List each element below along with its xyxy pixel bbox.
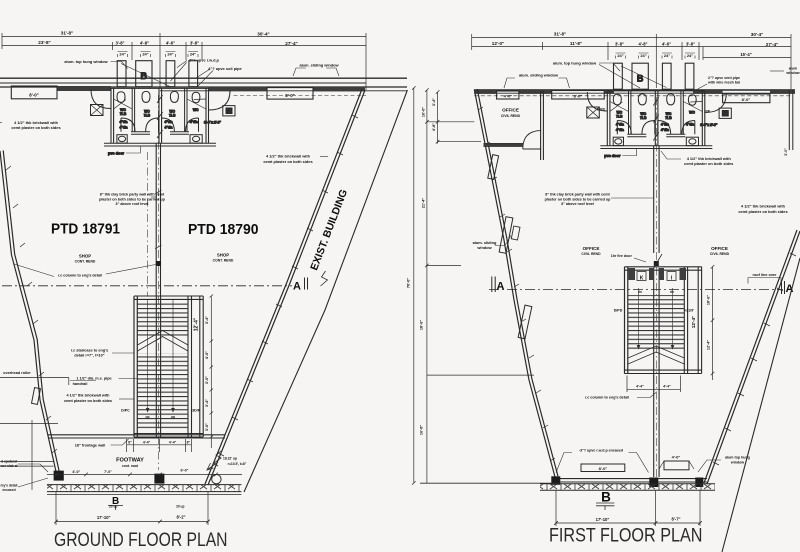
svg-text:8'-0": 8'-0"	[574, 93, 583, 98]
stair treads upper flight	[137, 302, 188, 336]
svg-text:7'-0": 7'-0"	[104, 470, 112, 474]
stair bottom wall	[134, 434, 203, 437]
wall window 1	[488, 155, 499, 180]
section line A-A right plan	[489, 289, 783, 291]
window box 4'-0	[497, 91, 519, 99]
svg-text:3'-4": 3'-4"	[205, 399, 209, 407]
svg-text:4'-8": 4'-8"	[432, 123, 436, 131]
svg-text:24": 24"	[664, 53, 670, 58]
section line break zigzag	[321, 271, 328, 286]
svg-text:3'-8": 3'-8"	[115, 41, 124, 46]
leader top hung	[599, 63, 707, 91]
roof note bracket	[748, 278, 781, 284]
svg-text:detail r=7", t=10": detail r=7", t=10"	[74, 354, 104, 358]
svg-text:8": 8"	[187, 441, 191, 445]
svg-text:-3"? upvc r.w.d.p encased: -3"? upvc r.w.d.p encased	[579, 449, 623, 453]
svg-text:my's detail: my's detail	[1, 484, 18, 488]
party note leader	[611, 197, 653, 199]
section line A-A	[2, 285, 292, 287]
svg-text:plaster on both sides to be ca: plaster on both sides to be carried up	[545, 197, 612, 201]
svg-text:dn: dn	[670, 290, 674, 294]
party door leaf	[654, 254, 662, 268]
svg-text:cemt plaster on both sides: cemt plaster on both sides	[64, 399, 112, 403]
window box 8'-0 right	[267, 88, 313, 100]
lower dim ticks	[54, 520, 210, 524]
party wall below wc	[654, 146, 659, 478]
svg-text:FOOTWAY: FOOTWAY	[116, 458, 144, 464]
svg-text:12'-0": 12'-0"	[492, 41, 504, 46]
section marker right bars	[782, 281, 785, 294]
leader rwdp	[177, 61, 187, 68]
svg-text:window: window	[785, 71, 799, 75]
dimension line 31'-8 / 30'-4	[2, 36, 366, 38]
dimension line row 2	[2, 45, 366, 47]
svg-text:4 1/2" thk brickwall with: 4 1/2" thk brickwall with	[67, 394, 111, 398]
svg-text:3'-8": 3'-8"	[686, 42, 695, 47]
24in bracket ticks	[118, 52, 199, 58]
rail connector 3	[426, 265, 461, 267]
rail connector 1	[427, 121, 474, 123]
svg-text:1hr fire door: 1hr fire door	[611, 254, 633, 258]
svg-text:K: K	[640, 276, 644, 282]
stair right dim rail	[712, 267, 714, 380]
wc cluster	[91, 61, 236, 156]
svg-text:CONT. REND: CONT. REND	[75, 260, 96, 264]
svg-text:4"? upvc soil pipe: 4"? upvc soil pipe	[208, 66, 242, 71]
svg-text:8'-0": 8'-0"	[742, 97, 751, 102]
svg-text:(3D/P: (3D/P	[191, 409, 201, 413]
exist boundary line right plan	[722, 258, 800, 552]
party wall ticks	[155, 190, 162, 249]
svg-text:11'-8": 11'-8"	[570, 41, 582, 46]
svg-text:24": 24"	[687, 53, 693, 58]
rail ticks	[412, 86, 439, 485]
dim extension verticals	[472, 34, 791, 92]
stair bottom dim verticals	[627, 376, 681, 393]
svg-text:with wire mesh bal: with wire mesh bal	[707, 81, 740, 85]
rail ticks	[711, 265, 715, 375]
left wall ticks	[478, 107, 555, 461]
wall window 2	[499, 217, 513, 254]
manhole circle	[212, 475, 221, 484]
svg-text:window: window	[730, 460, 744, 464]
24in bracket ticks	[616, 53, 696, 59]
party wall below wc	[156, 143, 160, 296]
handrail underline	[70, 380, 96, 382]
svg-text:A: A	[293, 281, 301, 293]
svg-text:cemt plaster on both sides: cemt plaster on both sides	[11, 125, 60, 130]
svg-text:r.c staircase to eng's: r.c staircase to eng's	[71, 349, 108, 353]
dimension line row 3	[703, 57, 791, 59]
right wall (double diagonal)	[208, 90, 365, 485]
footway band lower line	[47, 494, 241, 496]
svg-text:3" above roof level: 3" above roof level	[561, 202, 594, 206]
svg-text:4'-0": 4'-0"	[672, 455, 681, 460]
frontage leader	[111, 439, 129, 445]
leader right edge	[770, 70, 784, 72]
svg-text:r=10.5', t=8": r=10.5', t=8"	[228, 462, 247, 466]
window box 8'-0 left	[11, 86, 57, 99]
svg-text:CIVIL REND: CIVIL REND	[710, 252, 730, 256]
svg-text:20 up: 20 up	[109, 505, 117, 509]
top wall line 4	[160, 90, 407, 92]
office door arc	[523, 131, 541, 149]
svg-text:4'-6": 4'-6"	[166, 41, 175, 46]
svg-text:8'-0": 8'-0"	[599, 466, 608, 471]
office room wall vertical	[541, 91, 544, 160]
svg-text:3'-8": 3'-8"	[190, 41, 199, 46]
svg-text:CONT. REND: CONT. REND	[213, 259, 234, 263]
svg-text:PTD 18791: PTD 18791	[51, 222, 120, 238]
svg-text:70'-0": 70'-0"	[407, 278, 411, 289]
svg-text:24": 24"	[119, 52, 125, 57]
svg-text:plaster on both sides to be ca: plaster on both sides to be carried up	[99, 197, 166, 201]
svg-text:r.c column to eng's detail: r.c column to eng's detail	[58, 274, 102, 278]
right wall ticks	[713, 253, 796, 465]
svg-text:3'-0": 3'-0"	[205, 376, 209, 384]
top wall line 2	[474, 92, 795, 94]
lower dim line	[56, 521, 208, 523]
svg-text:1 1/2" dia. m.s. pipe: 1 1/2" dia. m.s. pipe	[76, 377, 111, 381]
stair center rails	[156, 296, 160, 437]
door landing box right	[667, 272, 676, 281]
arrow right	[671, 345, 675, 350]
top wall outer line	[0, 77, 407, 79]
column block left	[54, 471, 64, 481]
svg-text:alum. top hung window: alum. top hung window	[553, 61, 597, 66]
svg-text:GROUND FLOOR PLAN: GROUND FLOOR PLAN	[54, 529, 228, 551]
rc column leader	[14, 264, 156, 277]
svg-text:8" thk clay brick party wall w: 8" thk clay brick party wall with cemt	[545, 193, 610, 197]
svg-text:FIRST FLOOR PLAN: FIRST FLOOR PLAN	[549, 525, 703, 547]
svg-text:24": 24"	[617, 53, 623, 58]
stair top wall	[625, 267, 702, 270]
svg-text:SHOP: SHOP	[79, 254, 91, 259]
B marker underline	[108, 506, 123, 511]
rwdp leaders	[556, 453, 649, 473]
stair top door jamb blocks	[629, 268, 636, 280]
svg-text:4'-0": 4'-0"	[205, 351, 209, 359]
footway dim ticks	[55, 473, 218, 477]
svg-text:3"? upvc r.w.d.p: 3"? upvc r.w.d.p	[189, 58, 219, 63]
svg-text:16'-0": 16'-0"	[422, 107, 426, 118]
stair bottom chevron	[628, 346, 684, 364]
left dim rail inner	[437, 92, 439, 144]
left wall hatch ticks	[6, 166, 57, 453]
left dim rail mid	[426, 90, 428, 483]
stair right dim ticks	[210, 295, 214, 439]
staircase note leader	[112, 352, 134, 354]
footway band borders	[540, 484, 715, 490]
svg-text:31'-8": 31'-8"	[554, 32, 566, 37]
footway band borders	[47, 485, 241, 492]
handrail note leader	[119, 378, 138, 380]
stair enclosure left wall	[625, 267, 628, 374]
svg-text:OFFICE: OFFICE	[502, 108, 519, 113]
bottom window 4'-0 bracket	[659, 461, 694, 469]
svg-text:17'-10": 17'-10"	[97, 515, 111, 520]
right wall diagonal	[707, 231, 800, 484]
lower dim line	[556, 522, 700, 524]
svg-text:8'-0": 8'-0"	[29, 93, 38, 98]
arrow left	[637, 345, 641, 350]
svg-text:encased: encased	[2, 488, 15, 492]
svg-text:8'-7": 8'-7"	[671, 516, 680, 521]
svg-text:2"? upvc vent pipe: 2"? upvc vent pipe	[708, 76, 740, 80]
rc column leader	[637, 393, 656, 398]
svg-text:12'-4": 12'-4"	[691, 316, 696, 328]
svg-text:up: up	[145, 415, 149, 419]
svg-text:4'-4": 4'-4"	[636, 385, 644, 389]
window box 8'-0 left	[552, 91, 605, 100]
brickwall a leader	[661, 151, 681, 159]
svg-text:24": 24"	[142, 52, 148, 57]
svg-text:4'-6": 4'-6"	[662, 42, 671, 47]
svg-text:20 up: 20 up	[176, 505, 184, 509]
leader brickwall upper left	[0, 122, 2, 124]
stair handrail line right flight	[172, 300, 174, 408]
rail connector 2	[438, 141, 481, 143]
top hung leader	[698, 460, 721, 472]
kerb lines left	[0, 462, 54, 467]
lower dim extension verticals	[556, 490, 700, 526]
svg-text:8": 8"	[128, 441, 132, 445]
ramp zigzag arrow	[207, 451, 221, 470]
svg-text:SHOP: SHOP	[217, 253, 229, 258]
svg-text:+21/9': +21/9'	[684, 309, 694, 313]
svg-text:up: up	[171, 415, 175, 419]
column block mid	[154, 474, 164, 484]
bottom window box 4'-0	[664, 461, 689, 470]
dimension line row 1	[472, 37, 791, 39]
leader sliding window	[293, 68, 339, 76]
svg-text:18" frontage wall: 18" frontage wall	[75, 444, 106, 448]
left boundary connector	[420, 482, 555, 484]
stair enclosure right wall	[684, 267, 687, 374]
stair enclosure left wall	[134, 296, 137, 437]
svg-text:4'-0": 4'-0"	[504, 94, 513, 99]
column block right	[695, 478, 703, 488]
svg-text:CIVIL REND: CIVIL REND	[501, 114, 521, 118]
svg-text:18'-6": 18'-6"	[706, 295, 710, 306]
party dim extension	[655, 34, 657, 88]
svg-text:3'-4": 3'-4"	[432, 98, 436, 106]
stair handrail left flight	[638, 288, 640, 348]
lower dim ticks	[554, 521, 702, 525]
left wall window	[32, 388, 41, 405]
svg-text:4 1/2" thk brickwall with: 4 1/2" thk brickwall with	[266, 154, 311, 159]
svg-text:4'-4": 4'-4"	[169, 441, 177, 445]
wall solid chunks	[57, 86, 365, 91]
top wall outer line	[474, 89, 795, 91]
svg-text:30'-4": 30'-4"	[257, 32, 269, 37]
svg-text:A: A	[497, 281, 505, 293]
column square on right party wall	[654, 261, 659, 266]
left wall (double diagonal)	[0, 151, 57, 476]
svg-text:24": 24"	[167, 52, 173, 57]
svg-text:cemt plaster on both sides: cemt plaster on both sides	[263, 159, 312, 164]
svg-text:18.22' up: 18.22' up	[223, 457, 237, 461]
rail connector 4	[427, 374, 534, 376]
svg-text:24": 24"	[190, 52, 196, 57]
eng detail leader	[18, 478, 48, 487]
left wall diagonal	[474, 90, 555, 478]
window centerline dashed	[234, 95, 367, 97]
svg-text:24": 24"	[640, 53, 646, 58]
stair bottom dim line	[127, 444, 192, 446]
svg-text:PTD 18790: PTD 18790	[188, 222, 259, 238]
window box 8'-0 right	[723, 94, 770, 103]
svg-text:12'-4": 12'-4"	[193, 317, 199, 331]
left dim rail outer	[413, 88, 415, 483]
leader sliding mid	[495, 236, 511, 246]
shop gridline dash-dot	[146, 152, 148, 296]
svg-text:cont. road: cont. road	[122, 464, 138, 468]
svg-text:3" above roof level: 3" above roof level	[116, 202, 149, 206]
svg-text:4'-4": 4'-4"	[663, 385, 671, 389]
svg-text:30'-4": 30'-4"	[751, 32, 763, 37]
wall window 3	[518, 305, 532, 339]
bottom wall of shop	[48, 435, 225, 438]
svg-text:alum. top hung window: alum. top hung window	[64, 59, 108, 64]
office room wall hatched segment	[484, 144, 524, 147]
svg-text:27'-4": 27'-4"	[766, 42, 778, 47]
svg-text:alum top hung: alum top hung	[725, 456, 750, 460]
stair bottom dim line	[627, 388, 681, 390]
stair bottom wall	[625, 370, 702, 373]
arrow right flight	[171, 408, 175, 413]
stair handrail right flight	[672, 288, 674, 348]
stair treads block	[628, 295, 685, 352]
svg-text:roof line over: roof line over	[752, 273, 777, 277]
svg-text:3'-0": 3'-0"	[205, 423, 209, 431]
stair treads lower flight	[137, 353, 188, 430]
kerb line	[0, 423, 58, 425]
svg-text:cemt plaster on both sides: cemt plaster on both sides	[684, 161, 733, 166]
svg-text:31'-8": 31'-8"	[61, 31, 73, 36]
kerb upstand leader	[18, 464, 48, 472]
svg-text:12'-4": 12'-4"	[706, 340, 710, 351]
party wall centerline dash-dot	[157, 95, 159, 470]
leader for top hung window note	[111, 62, 214, 88]
svg-text:r.c column to eng's detail: r.c column to eng's detail	[585, 396, 629, 400]
stair top wall	[134, 296, 203, 299]
window centerline dashed	[474, 95, 791, 97]
stair shaft outer right wall	[200, 296, 203, 437]
footway hatched band	[47, 485, 241, 492]
dim extension verticals top	[2, 33, 366, 90]
svg-text:B: B	[601, 490, 611, 505]
B marker strokes	[596, 503, 614, 510]
svg-text:15'-4": 15'-4"	[740, 52, 751, 57]
exist building boundary line	[244, 90, 407, 492]
svg-text:3'-0": 3'-0"	[784, 148, 788, 156]
leader brickwall mid right	[320, 156, 328, 158]
stair bottom dim verticals	[127, 439, 192, 452]
svg-text:D/PD: D/PD	[614, 309, 623, 313]
stair mid landing chevron	[138, 331, 189, 352]
svg-text:4'-4": 4'-4"	[143, 441, 151, 445]
svg-text:23'-8": 23'-8"	[38, 40, 50, 45]
svg-text:cemt plaster on both sides: cemt plaster on both sides	[738, 209, 787, 214]
arrow left flight	[146, 408, 150, 413]
leader sliding	[504, 78, 570, 88]
column block left	[551, 476, 560, 485]
party centerline dash-dot	[655, 97, 657, 477]
leader soil pipe	[196, 69, 210, 78]
bottom wall of unit	[555, 479, 707, 482]
dimension line row 2	[472, 46, 791, 48]
svg-text:handrail: handrail	[73, 382, 88, 386]
svg-text:6'-0": 6'-0"	[181, 469, 189, 473]
right wall hatch ticks	[218, 115, 358, 456]
svg-text:17'-10": 17'-10"	[596, 517, 610, 522]
stair right dim rail	[210, 296, 212, 448]
svg-text:CIVIL REND: CIVIL REND	[581, 252, 601, 256]
svg-text:27'-4": 27'-4"	[285, 41, 297, 46]
svg-text:4'-8": 4'-8"	[140, 41, 149, 46]
wc cluster	[587, 63, 732, 158]
top wall line 2	[0, 82, 366, 84]
svg-text:overhead roller: overhead roller	[3, 371, 31, 375]
svg-text:4 1/2" thk brickwall with: 4 1/2" thk brickwall with	[741, 204, 786, 209]
door landing box left	[637, 272, 646, 281]
svg-text:4'-8": 4'-8"	[638, 42, 647, 47]
wall window 2 notch	[511, 226, 520, 240]
wall chunks	[474, 89, 795, 94]
svg-text:alum. sliding window: alum. sliding window	[519, 73, 559, 78]
svg-text:8" thk clay brick party wall w: 8" thk clay brick party wall with cemt	[100, 193, 165, 197]
column square on party wall	[156, 261, 161, 266]
svg-text:16'-8": 16'-8"	[420, 425, 424, 436]
stair shaft outer right wall	[698, 267, 701, 374]
svg-text:21'-4": 21'-4"	[421, 198, 425, 209]
svg-text:3'-4": 3'-4"	[205, 316, 209, 324]
svg-text:D/PC: D/PC	[121, 409, 130, 413]
footway dim line	[47, 473, 242, 475]
leader party note	[151, 196, 157, 198]
right jamb verticals	[789, 90, 793, 150]
lower dim extension verticals	[56, 492, 208, 525]
svg-text:3'-8": 3'-8"	[615, 42, 624, 47]
left lower dim vertical	[31, 420, 33, 490]
overhead roller leader	[0, 378, 69, 386]
party wall dim extension	[159, 33, 161, 88]
stair handrail line left flight	[147, 300, 149, 408]
stair enclosure right wall	[188, 296, 192, 437]
section marker bars	[305, 278, 308, 290]
svg-text:OFFICE: OFFICE	[711, 246, 728, 251]
footway hatched band	[540, 484, 715, 490]
bottom window box 8'-0	[581, 464, 625, 472]
svg-text:alum: alum	[789, 67, 797, 71]
section marker left bars	[492, 277, 495, 293]
svg-text:window: window	[476, 245, 492, 250]
fire door leader	[634, 258, 646, 262]
svg-text:18'-6": 18'-6"	[420, 320, 424, 331]
svg-text:alum. sliding window: alum. sliding window	[299, 63, 339, 68]
svg-text:OFFICE: OFFICE	[583, 246, 600, 251]
brickwall note leader	[119, 398, 134, 400]
svg-text:4'-0": 4'-0"	[72, 470, 80, 474]
svg-text:8'-2": 8'-2"	[176, 514, 185, 519]
top wall line 3	[0, 86, 407, 88]
column block mid	[649, 478, 658, 488]
